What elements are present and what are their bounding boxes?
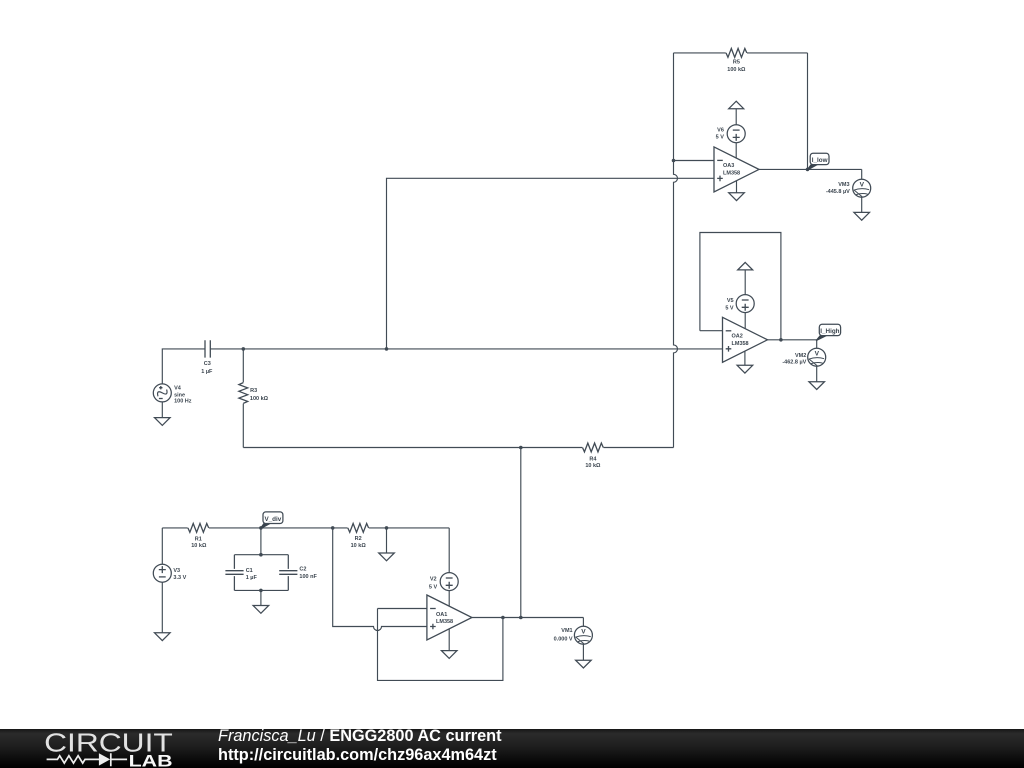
svg-text:OA2: OA2 — [732, 334, 743, 340]
svg-text:V2: V2 — [430, 576, 437, 582]
svg-text:V_div: V_div — [264, 516, 281, 523]
svg-text:5 V: 5 V — [725, 305, 734, 311]
svg-text:-445.8 µV: -445.8 µV — [826, 189, 850, 195]
svg-text:LM358: LM358 — [732, 341, 749, 347]
svg-text:100 Hz: 100 Hz — [174, 399, 192, 405]
svg-text:5 V: 5 V — [429, 584, 438, 590]
svg-text:V: V — [581, 629, 586, 636]
svg-text:I_low: I_low — [812, 157, 828, 164]
svg-text:V3: V3 — [173, 568, 180, 574]
svg-text:R3: R3 — [250, 388, 257, 394]
svg-text:LM358: LM358 — [723, 171, 740, 177]
svg-text:OA3: OA3 — [723, 163, 734, 169]
svg-text:I_High: I_High — [820, 328, 839, 335]
svg-text:-462.8 µV: -462.8 µV — [782, 360, 806, 366]
svg-text:1 µF: 1 µF — [201, 369, 213, 375]
svg-text:100 nF: 100 nF — [299, 574, 317, 580]
svg-text:LM358: LM358 — [436, 619, 453, 625]
svg-text:R4: R4 — [589, 457, 597, 463]
svg-text:3.3 V: 3.3 V — [173, 575, 186, 581]
svg-text:5 V: 5 V — [716, 135, 725, 141]
svg-text:V6: V6 — [717, 128, 724, 134]
svg-text:10 kΩ: 10 kΩ — [585, 463, 601, 469]
svg-text:VM3: VM3 — [838, 182, 849, 188]
svg-text:0.000 V: 0.000 V — [554, 636, 573, 642]
svg-text:C1: C1 — [246, 568, 253, 574]
svg-text:R2: R2 — [355, 536, 362, 542]
svg-text:VM2: VM2 — [795, 353, 806, 359]
svg-text:R5: R5 — [733, 60, 740, 66]
svg-text:V: V — [860, 182, 865, 189]
svg-text:C2: C2 — [299, 566, 306, 572]
svg-text:OA1: OA1 — [436, 612, 447, 618]
svg-text:100 kΩ: 100 kΩ — [250, 396, 269, 402]
svg-text:10 kΩ: 10 kΩ — [191, 543, 207, 549]
svg-text:sine: sine — [174, 392, 185, 398]
svg-text:V4: V4 — [174, 385, 182, 391]
svg-text:V: V — [815, 351, 820, 358]
svg-text:C3: C3 — [204, 361, 211, 367]
svg-text:10 kΩ: 10 kΩ — [351, 543, 367, 549]
svg-text:LAB: LAB — [129, 753, 173, 768]
svg-text:R1: R1 — [195, 536, 202, 542]
svg-text:100 kΩ: 100 kΩ — [727, 67, 746, 73]
svg-text:1 µF: 1 µF — [246, 575, 258, 581]
svg-text:VM1: VM1 — [561, 628, 572, 634]
svg-text:V5: V5 — [727, 298, 734, 304]
